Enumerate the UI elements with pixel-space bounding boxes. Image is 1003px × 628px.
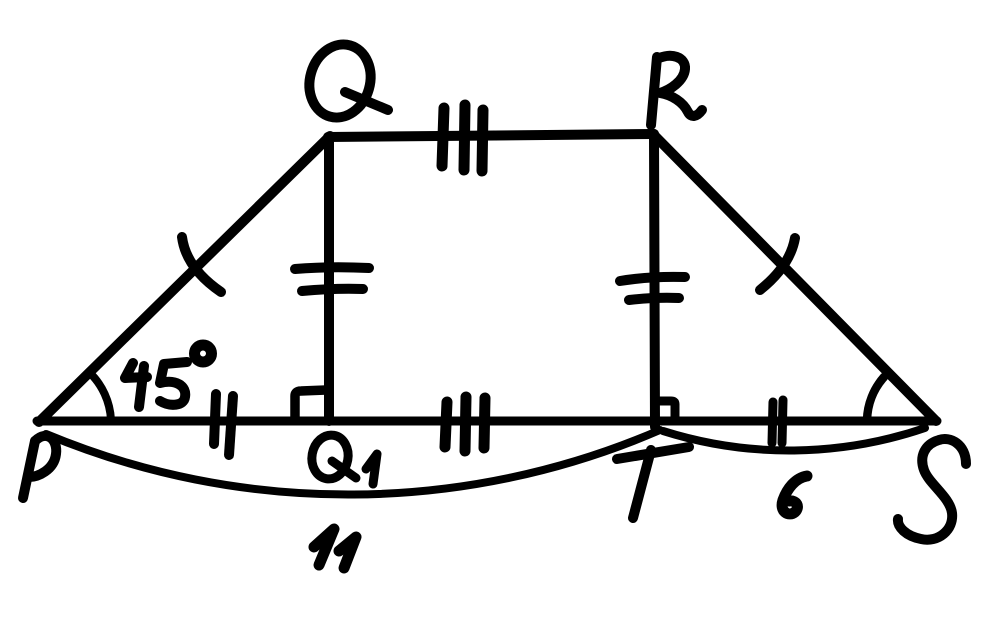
wire: top QR [328,134,654,137]
label Q1 [308,432,377,484]
wire: side PQ [39,136,330,422]
angle arc at S [867,377,884,420]
dimension arc T to S [663,428,925,450]
double tick on QQ1 [295,267,369,291]
double tick on RT [620,277,685,300]
wire: altitude QQ1 [324,137,334,421]
label 6 [782,476,807,514]
tick on RS [760,238,795,290]
triple tick on Q1T [445,397,485,451]
angle arc at P (45 deg) [89,372,111,420]
right angle at Q1 [295,390,326,418]
double tick on TS [772,400,783,443]
double tick on PQ1 [214,394,233,455]
wire: side RS [653,134,936,421]
label T [617,447,689,518]
label 45 degrees [125,345,212,407]
label 11 [314,529,356,568]
label Q [301,37,388,125]
triple tick on QR [442,105,483,171]
right angle at T [657,401,675,419]
label S [898,439,966,540]
dimension arc P to T [46,430,660,495]
tick on PQ [182,237,221,292]
label P [23,436,56,498]
label R [651,56,702,125]
wire: base PS [37,417,937,426]
wire: altitude RT [654,134,655,427]
